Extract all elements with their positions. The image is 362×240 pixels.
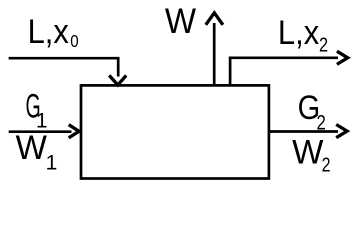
svg-text:W: W	[165, 2, 196, 41]
svg-text:2: 2	[317, 112, 326, 135]
wire: L,x2 overflow line	[230, 58, 338, 85]
svg-text:1: 1	[46, 152, 58, 175]
wire: G1/W1 inlet line	[9, 130, 72, 133]
process unit box	[81, 85, 269, 178]
svg-text:L,x: L,x	[278, 14, 319, 52]
svg-text:2: 2	[319, 33, 328, 56]
arrowhead down (L,x0 into box)	[109, 75, 126, 85]
arrowhead up (W)	[206, 13, 223, 25]
process flow block diagram	[0, 0, 362, 186]
arrowhead right (G2/W2)	[336, 125, 347, 138]
svg-text:W: W	[292, 134, 324, 171]
svg-text:0: 0	[70, 32, 78, 51]
wire: L,x0 feed line	[9, 58, 119, 76]
wire: G2/W2 outlet line	[270, 130, 339, 133]
arrowhead right (G1/W1 into box)	[69, 125, 79, 138]
svg-text:2: 2	[322, 154, 331, 176]
wire: W vapour line	[213, 23, 216, 85]
svg-text:W: W	[16, 129, 48, 166]
arrowhead right (L,x2)	[337, 51, 348, 64]
svg-text:L,x: L,x	[28, 13, 69, 51]
